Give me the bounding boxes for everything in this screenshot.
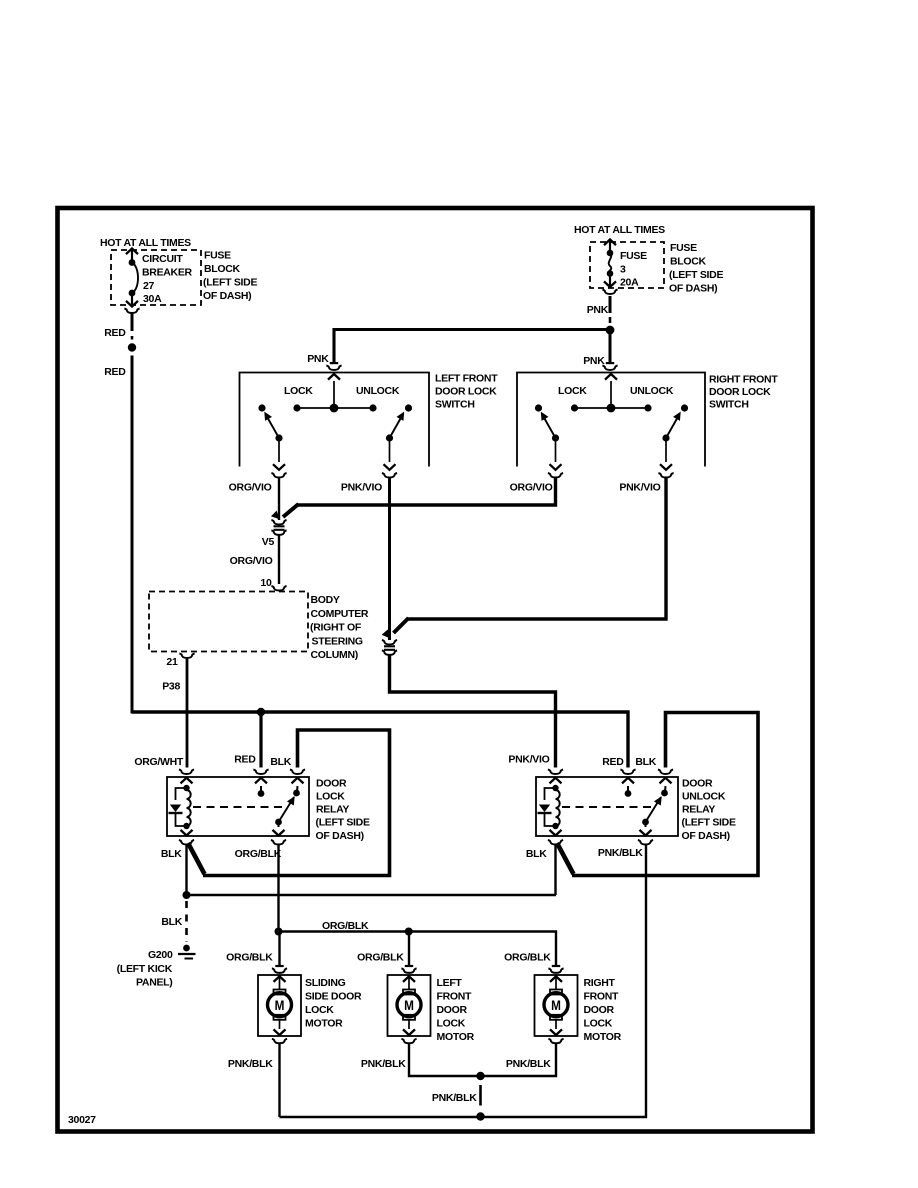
svg-text:BODY: BODY <box>311 594 340 606</box>
svg-text:PNK/BLK: PNK/BLK <box>228 1058 273 1070</box>
svg-text:FRONT: FRONT <box>437 991 473 1003</box>
svg-text:PNK/VIO: PNK/VIO <box>341 482 382 494</box>
svg-text:30A: 30A <box>143 293 162 305</box>
svg-text:BLK: BLK <box>635 756 656 768</box>
svg-text:3: 3 <box>620 264 626 276</box>
svg-text:30027: 30027 <box>68 1114 96 1126</box>
svg-text:ORG/WHT: ORG/WHT <box>134 756 184 768</box>
svg-text:10: 10 <box>260 577 272 589</box>
svg-text:BLK: BLK <box>526 848 547 860</box>
svg-text:P38: P38 <box>162 681 180 693</box>
svg-text:PANEL): PANEL) <box>136 977 173 989</box>
svg-text:PNK: PNK <box>583 355 605 367</box>
svg-text:PNK/BLK: PNK/BLK <box>361 1058 406 1070</box>
svg-text:PNK: PNK <box>307 353 329 365</box>
svg-text:PNK/BLK: PNK/BLK <box>432 1092 477 1104</box>
svg-text:ORG/BLK: ORG/BLK <box>322 920 369 932</box>
svg-text:RIGHT: RIGHT <box>584 977 616 989</box>
svg-text:FRONT: FRONT <box>584 991 620 1003</box>
svg-text:RELAY: RELAY <box>316 804 349 816</box>
svg-text:MOTOR: MOTOR <box>437 1031 475 1043</box>
svg-text:ORG/BLK: ORG/BLK <box>235 848 282 860</box>
svg-text:RIGHT FRONT: RIGHT FRONT <box>709 374 778 386</box>
svg-text:COMPUTER: COMPUTER <box>311 608 369 620</box>
svg-text:21: 21 <box>166 656 178 668</box>
svg-text:FUSE: FUSE <box>204 250 231 262</box>
svg-text:(LEFT SIDE: (LEFT SIDE <box>203 277 257 289</box>
svg-text:LEFT FRONT: LEFT FRONT <box>435 373 498 385</box>
svg-text:DOOR: DOOR <box>682 777 713 789</box>
svg-text:RED: RED <box>104 366 126 378</box>
svg-text:FUSE: FUSE <box>670 242 697 254</box>
svg-text:STEERING: STEERING <box>312 635 363 647</box>
svg-text:DOOR LOCK: DOOR LOCK <box>435 386 497 398</box>
svg-text:LOCK: LOCK <box>584 1018 613 1030</box>
svg-text:OF DASH): OF DASH) <box>669 283 717 295</box>
svg-text:OF DASH): OF DASH) <box>203 290 251 302</box>
svg-text:20A: 20A <box>620 277 639 289</box>
svg-text:DOOR LOCK: DOOR LOCK <box>709 386 771 398</box>
svg-text:ORG/BLK: ORG/BLK <box>504 952 551 964</box>
svg-text:ORG/VIO: ORG/VIO <box>230 555 273 567</box>
svg-text:OF DASH): OF DASH) <box>316 830 364 842</box>
svg-text:BLK: BLK <box>161 916 182 928</box>
svg-text:ORG/VIO: ORG/VIO <box>510 482 553 494</box>
svg-text:RED: RED <box>104 327 126 339</box>
svg-text:LOCK: LOCK <box>284 385 313 397</box>
svg-text:(LEFT SIDE: (LEFT SIDE <box>682 817 736 829</box>
svg-text:BLK: BLK <box>270 756 291 768</box>
svg-text:RELAY: RELAY <box>682 804 715 816</box>
svg-text:PNK/VIO: PNK/VIO <box>619 482 660 494</box>
svg-text:SIDE DOOR: SIDE DOOR <box>305 991 362 1003</box>
svg-text:HOT AT ALL TIMES: HOT AT ALL TIMES <box>100 237 191 249</box>
svg-text:SWITCH: SWITCH <box>435 399 475 411</box>
svg-text:PNK/BLK: PNK/BLK <box>598 847 643 859</box>
svg-text:G200: G200 <box>148 949 173 961</box>
svg-text:MOTOR: MOTOR <box>584 1031 622 1043</box>
svg-text:UNLOCK: UNLOCK <box>630 385 674 397</box>
svg-text:BREAKER: BREAKER <box>142 267 193 279</box>
svg-text:OF DASH): OF DASH) <box>682 830 730 842</box>
svg-text:V5: V5 <box>262 536 275 548</box>
svg-text:(LEFT SIDE: (LEFT SIDE <box>669 269 723 281</box>
svg-text:UNLOCK: UNLOCK <box>682 791 726 803</box>
svg-text:SLIDING: SLIDING <box>305 977 346 989</box>
svg-text:BLK: BLK <box>161 848 182 860</box>
svg-text:DOOR: DOOR <box>316 777 347 789</box>
svg-text:PNK/BLK: PNK/BLK <box>506 1058 551 1070</box>
svg-text:LOCK: LOCK <box>437 1018 466 1030</box>
svg-text:PNK: PNK <box>587 304 609 316</box>
svg-text:DOOR: DOOR <box>584 1004 615 1016</box>
svg-text:SWITCH: SWITCH <box>709 399 749 411</box>
svg-text:RED: RED <box>234 754 256 766</box>
svg-text:LEFT: LEFT <box>437 977 463 989</box>
svg-text:LOCK: LOCK <box>305 1004 334 1016</box>
svg-text:RED: RED <box>602 756 624 768</box>
svg-text:27: 27 <box>143 280 155 292</box>
svg-text:ORG/BLK: ORG/BLK <box>357 952 404 964</box>
svg-text:(RIGHT OF: (RIGHT OF <box>310 622 362 634</box>
svg-text:MOTOR: MOTOR <box>305 1018 343 1030</box>
svg-text:(LEFT SIDE: (LEFT SIDE <box>316 817 370 829</box>
svg-text:CIRCUIT: CIRCUIT <box>142 253 183 265</box>
svg-text:(LEFT KICK: (LEFT KICK <box>117 963 173 975</box>
svg-text:BLOCK: BLOCK <box>670 256 707 268</box>
svg-text:ORG/VIO: ORG/VIO <box>229 482 272 494</box>
svg-text:LOCK: LOCK <box>316 791 345 803</box>
svg-text:COLUMN): COLUMN) <box>311 649 358 661</box>
svg-text:LOCK: LOCK <box>558 385 587 397</box>
svg-text:BLOCK: BLOCK <box>204 263 241 275</box>
svg-text:FUSE: FUSE <box>620 250 647 262</box>
svg-text:PNK/VIO: PNK/VIO <box>508 754 549 766</box>
svg-text:UNLOCK: UNLOCK <box>356 385 400 397</box>
svg-text:HOT AT ALL TIMES: HOT AT ALL TIMES <box>574 224 665 236</box>
svg-text:ORG/BLK: ORG/BLK <box>226 952 273 964</box>
svg-text:DOOR: DOOR <box>437 1004 468 1016</box>
